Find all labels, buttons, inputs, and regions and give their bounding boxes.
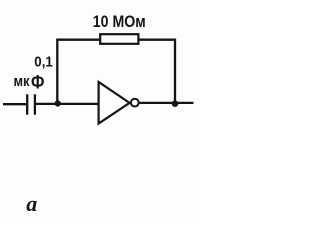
wire: inverter output — [140, 102, 194, 104]
paper background — [0, 0, 200, 222]
svg-text:мк: мк — [14, 73, 30, 90]
svg-text:а: а — [26, 191, 37, 216]
svg-text:10 МОм: 10 МОм — [93, 13, 146, 31]
wire: top feedback left segment — [57, 40, 100, 104]
inverter U1 output bubble — [131, 99, 139, 107]
node: input junction dot — [55, 100, 61, 106]
inverter U1 triangle — [99, 82, 130, 124]
wire: top feedback right segment — [139, 40, 176, 104]
resistor 10 МОм — [100, 34, 138, 44]
capacitor 0,1 мкФ — [27, 94, 35, 114]
wire: input lead to capacitor — [3, 103, 27, 105]
node: output junction dot — [172, 100, 179, 107]
svg-text:0,1: 0,1 — [34, 54, 53, 71]
svg-text:Ф: Ф — [31, 73, 44, 94]
wire: capacitor to inverter input — [36, 103, 98, 105]
